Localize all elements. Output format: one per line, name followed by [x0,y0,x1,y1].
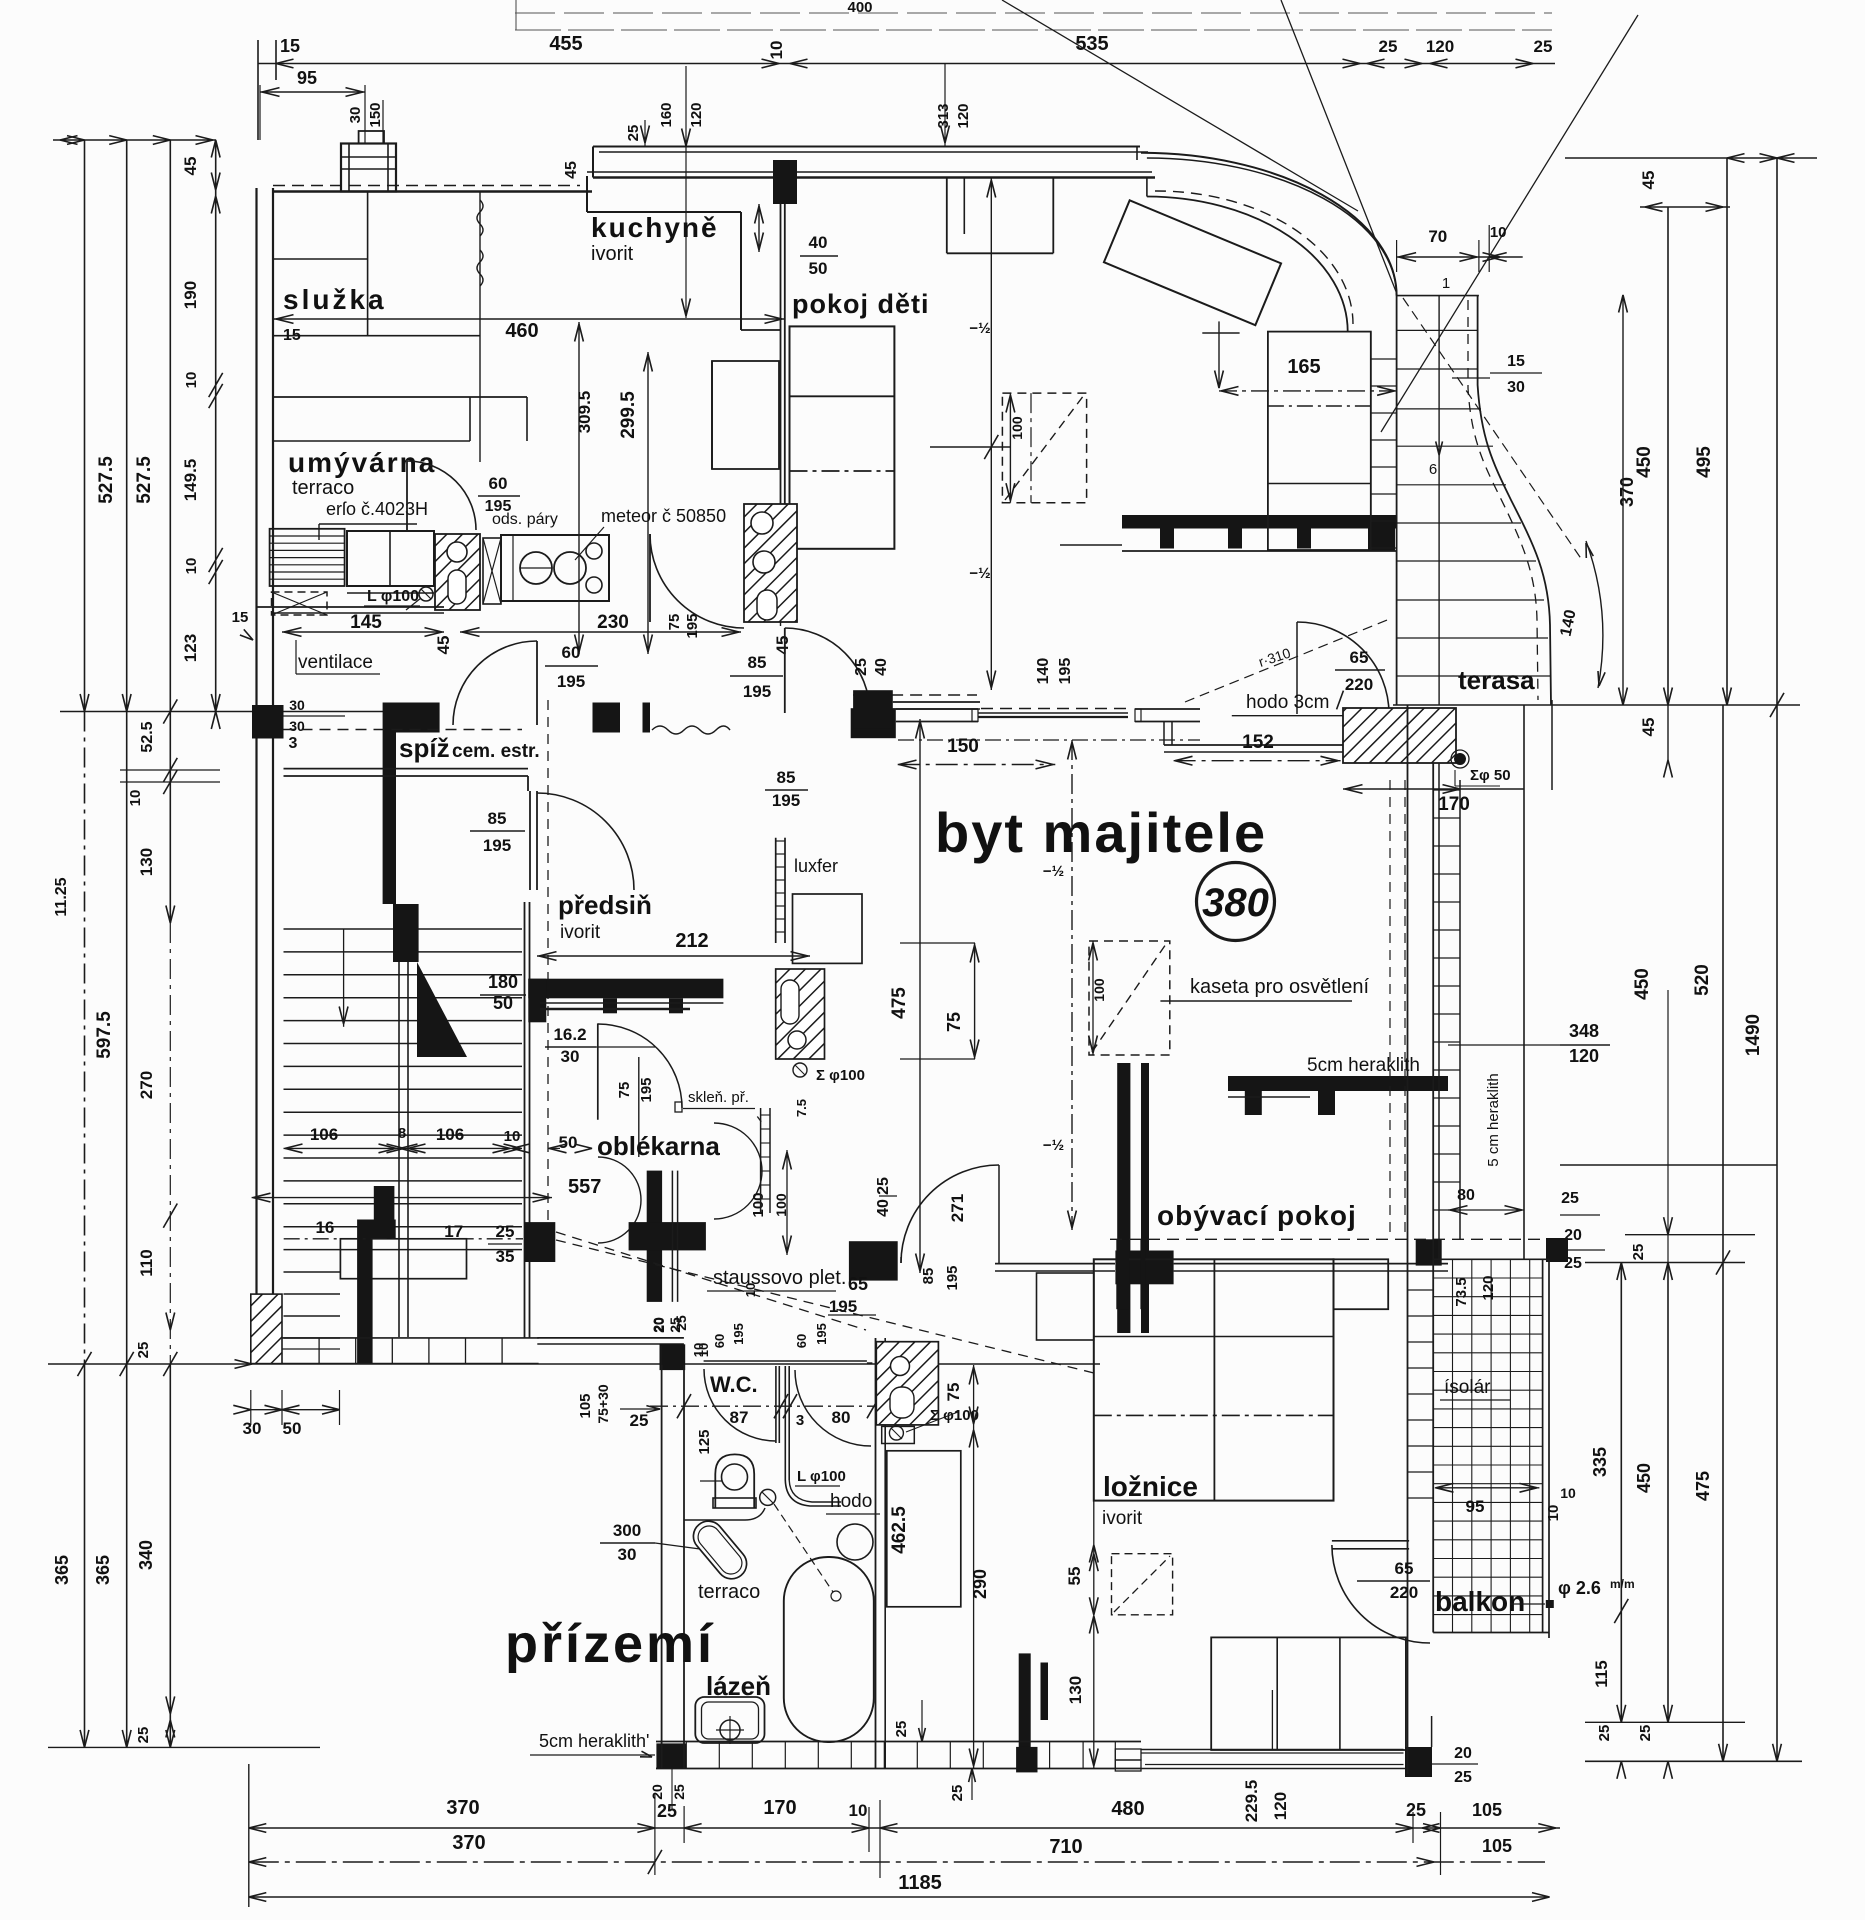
svg-text:475: 475 [1693,1471,1713,1501]
svg-text:462.5: 462.5 [889,1506,910,1554]
svg-text:220: 220 [1345,675,1373,694]
svg-text:160: 160 [658,102,675,127]
main top wall band y=146-178 [593,146,1140,148]
svg-text:145: 145 [350,612,382,633]
cross mark + arrow above 165 dim [1218,321,1220,388]
svg-text:L φ100: L φ100 [797,1468,846,1485]
svg-text:195: 195 [829,1297,857,1316]
wall kuchyne/pokoj deti (double) [780,202,782,560]
svg-text:3: 3 [289,735,298,752]
black bars loznice bottom-left [1019,1653,1031,1748]
svg-text:1185: 1185 [898,1872,941,1894]
svg-text:120: 120 [688,102,705,127]
dim 170 terasa [1343,788,1524,790]
svg-text:365: 365 [93,1555,113,1585]
svg-text:130: 130 [137,848,156,876]
dashed drain line [774,1504,833,1592]
svg-text:3: 3 [796,1412,804,1429]
svg-text:85: 85 [488,809,507,828]
svg-text:terraco: terraco [292,477,354,499]
svg-text:80: 80 [832,1408,851,1427]
svg-text:25: 25 [625,125,642,142]
svg-text:75: 75 [616,1082,633,1099]
sigma phi 100 note [793,1063,807,1077]
spiz dashed + wall lines [284,729,523,731]
svg-text:120: 120 [1569,1046,1599,1066]
WC door 1 (leaf + arc) [775,1366,777,1443]
long datum line y=1364 [48,1363,1100,1365]
svg-text:pokoj děti: pokoj děti [792,289,930,319]
svg-text:380: 380 [1202,881,1269,925]
svg-text:hodo 3cm: hodo 3cm [1246,692,1329,713]
wardrobe black bar predsin [528,979,723,999]
wall below obyvaci pokoj [995,1263,1115,1265]
svg-text:1: 1 [1442,275,1450,292]
svg-text:20: 20 [1454,1745,1472,1762]
WC lazen block left wall [661,1346,663,1768]
svg-text:195: 195 [772,791,800,810]
svg-text:16: 16 [315,1218,334,1237]
dimension line top right (25 | 120 | 25) [1360,63,1555,65]
dim 145 / 230 [282,631,444,633]
svg-text:15: 15 [280,36,300,56]
kitchen cabinet rectangle [712,361,779,469]
svg-text:170: 170 [1438,794,1470,815]
heraklith bar 2 [1228,1076,1448,1091]
svg-text:m/m: m/m [1610,1577,1635,1591]
svg-text:370: 370 [446,1797,479,1819]
svg-text:195: 195 [731,1323,746,1345]
svg-text:348: 348 [1569,1021,1599,1041]
black pier top kitchen/pokoj [773,160,797,204]
svg-text:30: 30 [1507,379,1525,396]
svg-text:−½: −½ [969,565,990,582]
dashed sight line to 140 arrow [1403,298,1582,560]
spiz black piers [252,705,284,739]
bottom extension lines [248,1764,250,1907]
svg-text:70: 70 [1428,227,1447,246]
svg-text:15: 15 [232,609,249,626]
svg-text:85: 85 [777,768,796,787]
dim 290 vertical [973,1365,975,1768]
svg-text:335: 335 [1590,1447,1610,1477]
svg-text:ložnice: ložnice [1103,1471,1198,1502]
kitchen bay step [586,176,588,212]
svg-text:180: 180 [488,972,518,992]
terasa walk strip courses [1397,295,1479,297]
dim 95 with chimney refs 30/150 [260,91,365,93]
svg-text:hodo: hodo [830,1491,872,1512]
window lines pokoj deti south + dims [853,694,977,696]
svg-text:55: 55 [1065,1567,1084,1586]
svg-text:75: 75 [944,1012,964,1032]
svg-text:450: 450 [1632,968,1653,1000]
datum line y=711.5 [60,711,430,713]
svg-text:150: 150 [947,736,979,757]
svg-text:5cm heraklith: 5cm heraklith [1307,1055,1420,1076]
svg-text:106: 106 [436,1125,464,1144]
svg-text:120: 120 [955,103,972,128]
380 circle [1197,863,1275,941]
svg-text:30: 30 [561,1047,580,1066]
oblekarna bottom wall [537,1337,684,1339]
svg-text:10: 10 [183,372,200,389]
svg-text:45: 45 [773,636,792,655]
svg-text:kaseta pro osvětlení: kaseta pro osvětlení [1190,976,1369,998]
svg-text:475: 475 [889,987,910,1019]
svg-text:230: 230 [597,612,629,633]
top right: construction tangent lines [1002,0,1358,211]
svg-text:195: 195 [638,1077,655,1102]
rotated rectangle (garage roof) [1104,200,1281,325]
svg-text:120: 120 [1271,1792,1290,1820]
svg-text:195: 195 [557,672,585,691]
dim 100 rotated x=787 [786,1150,788,1255]
svg-text:150: 150 [367,102,384,127]
black pier right [1416,1239,1442,1265]
svg-text:terraco: terraco [698,1581,760,1603]
svg-text:11.25: 11.25 [53,877,70,916]
curved dim 140 [1586,541,1603,688]
svg-text:20: 20 [650,1317,666,1333]
svg-text:557: 557 [568,1176,601,1198]
svg-text:95: 95 [1466,1497,1485,1516]
spiz door (leaf + arc) [529,791,531,890]
shower tray [695,1697,764,1743]
svg-text:30: 30 [289,697,305,713]
dim 75 vertical [974,943,976,1059]
right dims 335/450/475 and 115/25/25 [1620,1263,1622,1723]
black piers at spiz/predsin wall y=702-732 [593,703,621,733]
106/8/106/10 dim line [284,1147,523,1149]
svg-text:oblékarna: oblékarna [597,1131,720,1161]
svg-text:cem. estr.: cem. estr. [452,741,540,762]
furniture box below curve [1268,332,1371,550]
right dim datum y=1262.5 [1585,1262,1745,1264]
right dims near y=1200 [1560,1164,1777,1166]
umyvarna door leaf+arc [406,461,408,530]
kaseta dashed box K3 loznice [1112,1554,1173,1615]
heraklith bar 1 (wardrobe wall) [1122,515,1397,529]
black chimney bars vertical center [1117,1063,1130,1333]
left dim lower segment labels 52.5/10/130/11.25 [169,712,171,924]
svg-text:165: 165 [1287,356,1320,378]
dim 150 [898,764,1056,766]
svg-text:87: 87 [730,1408,749,1427]
svg-text:ivorit: ivorit [1102,1508,1143,1529]
svg-text:−½: −½ [1043,1137,1064,1154]
svg-text:106: 106 [310,1125,338,1144]
svg-text:30: 30 [347,107,364,124]
svg-text:460: 460 [505,320,538,342]
svg-text:455: 455 [549,33,582,55]
svg-text:25: 25 [135,1342,152,1359]
loznice beds block [1037,1273,1094,1340]
svg-text:52.5: 52.5 [139,721,156,752]
left dim x=215 segment labels [211,140,220,158]
dim 475 vertical [919,719,921,1273]
pokoj deti beds [790,326,895,548]
svg-text:535: 535 [1075,33,1108,55]
dashed radius line r310 [1185,618,1392,702]
svg-text:271: 271 [948,1194,967,1222]
vertical section dim line x=991 in pokoj deti [990,177,992,690]
right wall of obyvaci pokoj strip [1432,763,1434,1259]
terasa door arc [1297,622,1389,714]
svg-text:365: 365 [52,1555,72,1585]
svg-text:50: 50 [559,1133,578,1152]
svg-text:umývárna: umývárna [288,447,436,478]
svg-text:597.5: 597.5 [94,1011,115,1059]
svg-text:45: 45 [181,157,200,176]
luxfer strip + square [775,838,777,943]
svg-text:16.2: 16.2 [553,1025,586,1044]
svg-text:45: 45 [563,161,580,179]
svg-text:85: 85 [920,1268,937,1285]
wavy insulation line in wall y=730 [652,726,730,734]
under-stair room rect [340,1239,466,1279]
svg-text:5 cm heraklith: 5 cm heraklith [1485,1073,1502,1166]
kitchen right wall 40/50 dim [758,204,760,252]
svg-text:152: 152 [1242,732,1274,753]
svg-text:313: 313 [935,103,952,128]
dim 152 [1174,760,1341,762]
svg-text:195: 195 [944,1265,961,1290]
corridor floor tiles y=1337-1364 [283,1337,539,1339]
svg-text:45: 45 [1639,718,1658,737]
svg-text:25: 25 [135,1727,152,1744]
building left outer wall (double line) [255,188,257,1364]
svg-text:30: 30 [618,1545,637,1564]
narrow column right of box [1370,332,1372,550]
oblekarna top door from predsin (hinge left, arc) [597,1023,599,1119]
svg-text:125: 125 [696,1429,713,1454]
svg-text:25: 25 [1630,1244,1647,1261]
road curve inner + dashed [1147,197,1348,332]
stove meteor with burners [501,535,609,601]
svg-text:25: 25 [1379,37,1398,56]
svg-text:10: 10 [127,790,144,807]
kitchen door to predsin (leaf + arc) [649,534,651,622]
svg-text:190: 190 [181,281,200,309]
bottom dim line A: 370|25|170|10|480|25|105 [249,1827,1560,1829]
hatched terasa pier [1343,708,1456,763]
svg-text:45: 45 [434,636,453,655]
svg-text:50: 50 [809,259,828,278]
right dim column verticals [1565,157,1817,159]
svg-text:1490: 1490 [1743,1014,1764,1056]
svg-text:299.5: 299.5 [618,391,639,439]
svg-text:270: 270 [137,1071,156,1099]
svg-text:149.5: 149.5 [181,459,200,502]
svg-text:195: 195 [684,613,701,638]
svg-text:212: 212 [675,930,708,952]
svg-text:115: 115 [1592,1660,1611,1687]
dim 460 line y=319 [273,318,785,320]
svg-text:100: 100 [750,1192,767,1217]
svg-text:15: 15 [1507,353,1525,370]
washboard striped box [270,529,345,586]
svg-text:195: 195 [1057,658,1074,685]
svg-text:terasa: terasa [1458,665,1535,695]
oblekarna left double-swing door arcs [598,1157,641,1200]
svg-text:10: 10 [1545,1505,1562,1522]
kaseta dashed box K1 pokoj deti [1002,393,1086,503]
svg-text:W.C.: W.C. [710,1372,758,1397]
svg-text:35: 35 [496,1247,515,1266]
svg-text:10: 10 [767,41,786,60]
dashed room line y=1239 [1110,1238,1556,1240]
svg-text:495: 495 [1694,446,1715,478]
svg-text:100: 100 [1091,978,1107,1002]
svg-text:45: 45 [1639,171,1658,190]
svg-text:10: 10 [1490,224,1507,241]
svg-text:ísolár: ísolár [1444,1377,1491,1398]
window niche top [946,177,948,253]
bottom dim line C: 1185 [249,1896,1550,1898]
svg-text:5cm heraklith': 5cm heraklith' [539,1731,649,1751]
svg-text:75: 75 [944,1383,963,1402]
svg-text:ventilace: ventilace [298,652,373,673]
center dash-dot vertical dim [1071,740,1073,1230]
washbasin oval [687,1515,752,1585]
svg-text:309.5: 309.5 [575,391,594,434]
svg-text:25: 25 [893,1721,910,1738]
svg-text:Σ φ100: Σ φ100 [816,1067,865,1084]
predsin dashed extension x=548 [547,700,549,1222]
dim 165 [1219,390,1397,392]
WC/bath partition wall L-shaped [784,1366,786,1480]
svg-text:60: 60 [794,1334,809,1348]
svg-text:erſo č.4023H: erſo č.4023H [326,499,428,519]
dim 70/10 top of strip [1397,256,1523,258]
svg-text:25: 25 [657,1801,677,1821]
svg-text:25: 25 [949,1785,966,1802]
predsin left wall with spiz door gap [524,902,526,1338]
svg-text:50: 50 [493,993,513,1013]
svg-text:30: 30 [243,1419,262,1438]
svg-text:10: 10 [1560,1485,1576,1501]
svg-text:73.5: 73.5 [1453,1277,1470,1306]
dim 95 balcony [1435,1487,1540,1489]
svg-text:105: 105 [577,1393,594,1418]
black block predsin bottom-left + dashed leaders [524,1222,555,1262]
dim 309.5 / 299.5 verticals [578,322,580,654]
balcony grid [1433,1259,1542,1632]
svg-text:balkon: balkon [1435,1586,1525,1617]
left dimension column - header ticks [53,139,216,141]
svg-text:65: 65 [1350,648,1369,667]
svg-text:105: 105 [1472,1800,1502,1820]
svg-text:−½: −½ [969,320,990,337]
sigma phi 50 note [1454,753,1466,765]
svg-text:527.5: 527.5 [96,456,117,504]
svg-text:25: 25 [875,1177,892,1195]
svg-text:φ 2.6: φ 2.6 [1558,1578,1601,1598]
black cross pier center [647,1171,662,1302]
stair black wedge [417,962,467,1057]
dim 557 line [252,1197,552,1199]
dashed vertical extensions below terasa [1389,780,1391,1239]
ladder strip lower [760,1108,762,1213]
svg-text:123: 123 [181,634,200,662]
dims 55 / 130 left loznice [1093,1501,1095,1768]
svg-text:25: 25 [1637,1725,1654,1742]
X dashed box ventilace [272,592,328,615]
svg-text:spíž: spíž [399,733,450,763]
svg-text:byt majitele: byt majitele [935,801,1267,864]
svg-text:25: 25 [1454,1769,1472,1786]
separation wavy line sluzka/kuchyne x=480 [479,192,481,463]
left dim verticals [84,140,86,712]
dash-dot line y=1238.8 [284,1238,523,1240]
svg-text:25: 25 [1406,1800,1426,1820]
svg-text:105: 105 [1482,1836,1512,1856]
svg-text:710: 710 [1049,1836,1082,1858]
270 arrow inside stairs [343,929,345,1027]
svg-text:220: 220 [1390,1583,1418,1602]
right wall of loznice + balcony [1407,705,1409,1774]
svg-text:50: 50 [283,1419,302,1438]
dimension line top (15 | 455 | 10 | 535) [258,63,1360,65]
svg-text:služka: služka [283,284,387,315]
svg-text:340: 340 [136,1540,156,1570]
svg-text:předsiň: předsiň [558,890,652,920]
dim 55 mark [1060,1544,1094,1546]
svg-text:229.5: 229.5 [1242,1780,1261,1823]
pokoj deti door arc lower-left [784,628,786,713]
X-crossed narrow box [483,538,501,604]
svg-text:290: 290 [970,1569,990,1599]
svg-text:25: 25 [673,1315,689,1331]
svg-text:450: 450 [1634,1463,1654,1493]
svg-text:25: 25 [1596,1725,1613,1742]
strip right edge S-curve [1478,296,1551,705]
svg-text:520: 520 [1692,964,1713,996]
svg-text:meteor č 50850: meteor č 50850 [601,506,726,526]
svg-text:10: 10 [691,1343,706,1357]
hatched pier bottom-left wall [251,1294,282,1364]
stairs lower small lines [284,1271,341,1273]
door arc at spiz entry [536,641,538,725]
byt majitele top wall segments [851,708,896,738]
door obyvaci pokoj arc [900,1257,902,1263]
svg-text:120: 120 [1480,1275,1497,1300]
WC right wall + hatched flue [875,1338,877,1768]
svg-text:7.5: 7.5 [794,1099,809,1117]
svg-text:527.5: 527.5 [134,456,155,504]
svg-text:80: 80 [1457,1187,1475,1204]
svg-text:Σφ 50: Σφ 50 [1470,767,1511,784]
svg-text:60: 60 [712,1334,727,1348]
svg-text:ivorit: ivorit [560,922,601,943]
sluzka room partitions [273,258,368,260]
svg-text:100: 100 [1009,416,1025,440]
svg-text:480: 480 [1111,1798,1144,1820]
toilet [715,1454,754,1508]
hatched pier kitchen A with circles [435,534,480,610]
dims 87/3/80 on dash-dot line [650,1405,880,1407]
window strip bottom loznice [1115,1749,1141,1760]
svg-text:8: 8 [398,1125,406,1142]
oblekarna right double-swing door arcs [714,1123,762,1171]
svg-text:−½: −½ [1043,863,1064,880]
svg-text:75+30: 75+30 [595,1384,611,1424]
svg-text:25: 25 [1561,1190,1579,1207]
black piers at stair bottom [374,1186,395,1239]
svg-text:ivorit: ivorit [591,243,634,265]
svg-text:370: 370 [1617,477,1637,507]
